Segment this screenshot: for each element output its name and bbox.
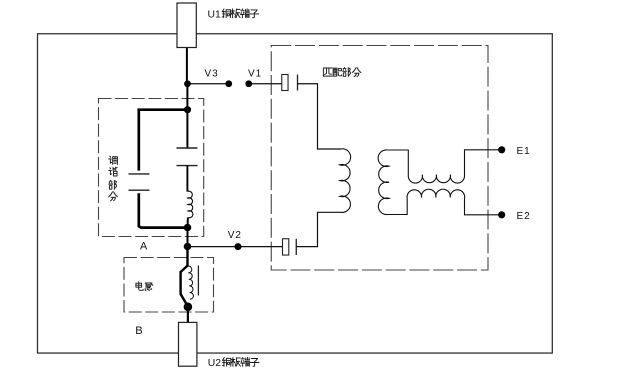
wire: V3 tap: [188, 83, 229, 85]
wire: V2 tap to matching capacitor C4: [188, 246, 283, 248]
wire: L2 to bottom terminal: [187, 307, 189, 323]
node E1 dot: [498, 146, 505, 153]
svg-text:V3: V3: [205, 69, 219, 80]
wire: T1 secondary top to T2 primary: [388, 150, 409, 176]
label 电感: [136, 282, 143, 291]
label 调谐部分 (vertical): [109, 156, 118, 164]
node V3 wire-end dot: [225, 80, 232, 87]
capacitor C1 (tuning, centre branch) plates: [177, 148, 198, 166]
matching section dashed box 匹配部分: [271, 46, 488, 271]
terminal U1 copper plate (top): [177, 3, 196, 48]
svg-text:E1: E1: [517, 146, 531, 157]
transformer T2 secondary winding (arcs bulge up): [407, 189, 465, 198]
svg-text:U2: U2: [208, 358, 222, 369]
terminal U2 copper plate (bottom): [179, 322, 197, 366]
node V2 dot: [235, 243, 242, 250]
wire: top terminal to node V3: [186, 45, 188, 84]
node V2 junction dot: [184, 243, 192, 251]
node V3 junction dot: [184, 80, 191, 87]
wire: thick branch bottom (C2 to junction): [139, 193, 188, 227]
svg-text:V2: V2: [228, 230, 242, 241]
wire: C4 to transformer T1 primary bottom: [296, 212, 341, 246]
node E2 dot: [498, 211, 505, 218]
svg-text:U1: U1: [208, 9, 222, 20]
capacitor C3 plate: [297, 75, 299, 91]
inductor L2 coil loops: [188, 266, 193, 299]
inductor L1 (tuning, centre branch) coil: [187, 191, 192, 218]
inductor L2 core bar: [197, 266, 199, 296]
svg-text:E2: E2: [517, 211, 531, 222]
frame: outer enclosure box: [38, 34, 553, 353]
wire: T2 primary right lead to E1: [465, 150, 502, 176]
wire: T2 secondary right lead to E2: [465, 199, 502, 215]
wire: L1 to node A junction: [187, 218, 189, 247]
tuning section dashed box 调谐部分: [99, 99, 204, 237]
svg-text:B: B: [135, 325, 142, 337]
svg-text:A: A: [140, 240, 148, 252]
junction dot (thick branch top): [184, 106, 191, 113]
transformer T2 primary winding (arcs bulge down): [408, 175, 464, 183]
capacitor C3 (matching top): box electrode: [282, 75, 288, 91]
transformer T1 primary winding (left, arcs bulge right): [340, 149, 351, 213]
junction dot (thick branch bottom): [184, 224, 192, 232]
transformer T1 secondary winding (middle, arcs bulge left): [378, 150, 389, 215]
wire: V1 to matching capacitor C3: [249, 83, 282, 85]
junction dot below L2: [184, 303, 193, 312]
wire: T1 secondary bottom to T2 secondary: [387, 199, 407, 215]
wire: thick branch top (junction to C2): [139, 110, 188, 171]
capacitor C4 plate: [295, 239, 297, 255]
wire: C3 to transformer T1 primary top: [298, 84, 342, 149]
wire: node V3 down to tuning capacitor C1: [186, 84, 188, 148]
label 匹配部分: [323, 68, 332, 76]
wire + inductor L2 bent thick lead: [181, 247, 188, 307]
capacitor C2 (tuning, left branch) plates: [129, 174, 150, 190]
svg-text:V1: V1: [248, 69, 262, 80]
inductor dashed box 电感: [124, 258, 214, 313]
wire: C1 to inductor L1: [186, 166, 188, 192]
node V1 dot: [245, 80, 252, 87]
capacitor C4 (matching bottom): box electrode: [283, 239, 289, 255]
